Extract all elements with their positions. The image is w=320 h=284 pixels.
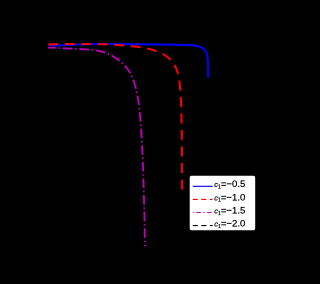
curve c1=-2.0 (black dashed, invisible on black background) (48, 47, 118, 240)
legend sample line c1=-0.5 (blue solid) (193, 185, 213, 187)
curve c1=-1.5 (magenta dash-dot) (48, 48, 145, 247)
curve c1=-1.0 (red dashed) (48, 44, 182, 190)
legend box (189, 175, 256, 231)
legend sample line c1=-2.0 (black dashed) (193, 225, 213, 227)
legend sample line c1=-1.5 (magenta dash-dot) (193, 212, 213, 214)
curve c1=-0.5 (blue solid) (49, 44, 209, 78)
legend sample line c1=-1.0 (red dashed) (193, 198, 213, 200)
